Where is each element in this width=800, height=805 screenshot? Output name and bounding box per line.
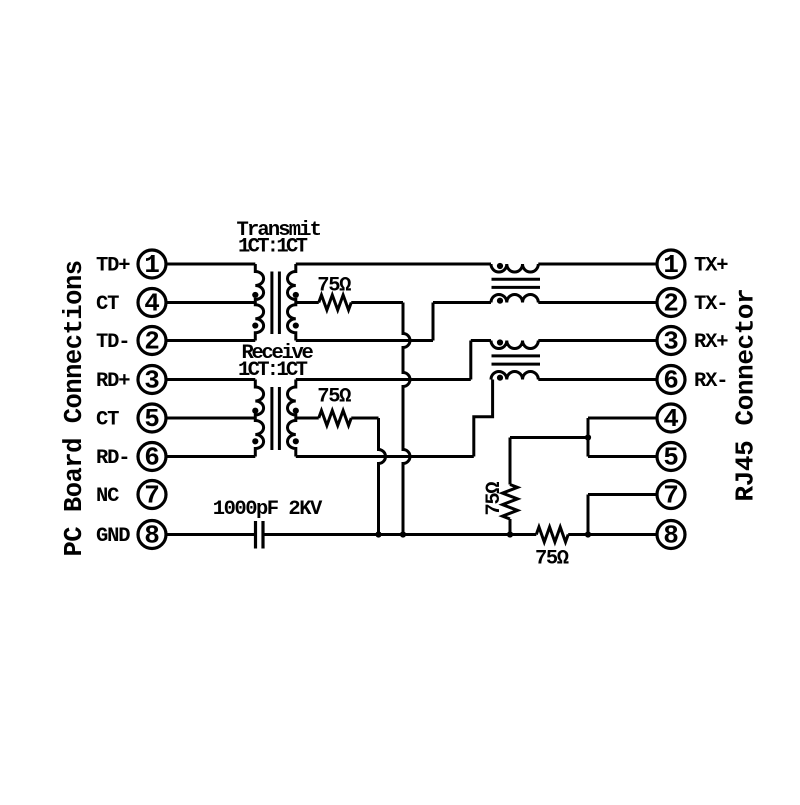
svg-text:1000pF 2KV: 1000pF 2KV (213, 498, 323, 521)
wire pin 7 drop to GND bus (587, 495, 590, 535)
wire GND bus to RJ45 pin 8 (568, 533, 657, 536)
PCB pin 7 circle (138, 481, 166, 511)
wire R2 to vertical node B (351, 417, 378, 420)
wire RJ45 pin 7 stub (588, 493, 657, 496)
svg-text:RX+: RX+ (694, 331, 728, 354)
transformer T1 primary winding (255, 264, 263, 341)
RJ45 pin 2 circle (657, 289, 685, 319)
junction pins 4-5 node (585, 434, 591, 440)
label Receive (242, 342, 314, 365)
svg-text:7: 7 (663, 481, 679, 511)
PCB pin 1 circle (138, 250, 166, 280)
wire node B vertical with hop (379, 418, 386, 535)
svg-text:TX+: TX+ (694, 255, 728, 278)
transformer T1 secondary winding (287, 264, 295, 341)
label CT (96, 409, 119, 432)
wire tie node to resistor R3 (510, 436, 588, 439)
svg-text:8: 8 (144, 521, 160, 551)
wire node A vertical with hops (403, 303, 410, 535)
RJ45 pin 7 circle (657, 481, 685, 511)
svg-text:6: 6 (663, 366, 679, 396)
choke L2 top coil (491, 341, 538, 349)
RJ45 pin 3 circle (657, 327, 685, 357)
PCB pin 3 circle (138, 366, 166, 396)
wire T2 secondary top (RX+) (296, 378, 471, 381)
svg-text:4: 4 (144, 289, 160, 319)
wire L1 to RJ45 pin 1 (538, 263, 657, 266)
svg-text:3: 3 (663, 327, 679, 357)
L1 bottom polarity dot (497, 298, 503, 304)
label NC (96, 485, 119, 508)
label CT (96, 293, 119, 316)
wire GND pin 8 to capacitor (166, 533, 254, 536)
svg-text:GND: GND (96, 525, 130, 548)
resistor R3 75ohm vertical (503, 485, 518, 520)
wire R3 top lead (509, 438, 512, 485)
svg-text:75Ω: 75Ω (317, 385, 351, 408)
T2 secondary polarity dot (293, 408, 299, 414)
label 1000pF 2KV (213, 498, 323, 521)
svg-text:RD+: RD+ (96, 370, 130, 393)
choke L1 bottom coil (491, 294, 538, 302)
choke L1 top coil (491, 264, 538, 272)
svg-text:5: 5 (663, 443, 679, 473)
svg-text:RX-: RX- (694, 370, 727, 393)
junction R3 on GND bus (507, 531, 513, 537)
junction node B on GND bus (375, 531, 381, 537)
wire pin 6 to transformer row 6 (166, 455, 255, 458)
svg-text:NC: NC (96, 485, 119, 508)
svg-text:75Ω: 75Ω (483, 482, 506, 516)
label 1CT:1CT (transmit) (238, 235, 308, 258)
RJ45 pin 6 circle (657, 366, 685, 396)
svg-text:7: 7 (144, 481, 160, 511)
svg-text:8: 8 (663, 521, 679, 551)
junction pin7 drop on GND bus (585, 531, 591, 537)
wire GND bus cap to resistor R4 (265, 533, 537, 536)
wire RJ45 pin 4 stub (588, 417, 657, 420)
wire T1 secondary top to choke L1 (296, 263, 491, 266)
svg-text:6: 6 (144, 443, 160, 473)
RJ45 pin 5 circle (657, 443, 685, 473)
label TD+ (96, 255, 130, 278)
svg-text:CT: CT (96, 409, 119, 432)
svg-text:TD-: TD- (96, 331, 129, 354)
PCB pin 4 circle (138, 289, 166, 319)
label RD- (96, 447, 129, 470)
capacitor C1 left plate (254, 521, 257, 549)
right title RJ45 Connector (730, 289, 760, 502)
RJ45 pin 4 circle (657, 404, 685, 434)
label TX- (694, 293, 727, 316)
label 75&#937; (R2) (317, 385, 351, 408)
svg-text:1CT:1CT: 1CT:1CT (238, 235, 308, 258)
PCB pin 6 circle (138, 443, 166, 473)
wire pin 5 to transformer row 5 (166, 417, 255, 420)
wire TX- riser (432, 303, 435, 341)
T1 secondary polarity dot (293, 292, 299, 298)
label 75&#937; (R3, vertical) (483, 482, 506, 516)
wire TX- to choke L1 (433, 301, 491, 304)
T1 core lines (272, 272, 280, 335)
L2 core lines (492, 356, 541, 364)
svg-text:CT: CT (96, 293, 119, 316)
svg-text:RD-: RD- (96, 447, 129, 470)
T1 secondary lower dot (293, 322, 299, 328)
wire L2 to RJ45 pin 3 (538, 339, 657, 342)
label RX+ (694, 331, 728, 354)
T1 primary polarity dot (252, 292, 258, 298)
RJ45 pin 1 circle (657, 250, 685, 280)
wire pin 3 to transformer row 4 (166, 378, 255, 381)
label 75&#937; (R4) (535, 548, 569, 571)
resistor R1 75ohm (319, 295, 352, 310)
wire RX+ riser (469, 341, 472, 380)
T2 secondary lower dot (293, 438, 299, 444)
wire T2 secondary CT to resistor R2 (296, 417, 319, 420)
L2 bottom polarity dot (497, 375, 503, 381)
label 1CT:1CT (receive) (238, 359, 308, 382)
wire pin 1 to transformer row 1 (166, 263, 255, 266)
label RX- (694, 370, 727, 393)
svg-text:RJ45 Connector: RJ45 Connector (730, 289, 760, 502)
resistor R2 75ohm (319, 411, 352, 426)
svg-text:75Ω: 75Ω (535, 548, 569, 571)
wire R3 bottom lead (509, 519, 512, 535)
wire pin 2 to transformer row 3 (166, 339, 255, 342)
T2 primary lower dot (252, 438, 258, 444)
svg-text:TX-: TX- (694, 293, 727, 316)
svg-text:4: 4 (663, 404, 679, 434)
wire RJ45 pin 5 stub (588, 455, 657, 458)
capacitor C1 right plate (261, 521, 264, 549)
junction node A on GND bus (400, 531, 406, 537)
label GND (96, 525, 130, 548)
PCB pin 8 circle (138, 521, 166, 551)
L1 core lines (492, 279, 541, 287)
wire R1 to vertical node A (351, 301, 403, 304)
RJ45 pin 8 circle (657, 521, 685, 551)
svg-text:3: 3 (144, 366, 160, 396)
label 75&#937; (R1) (317, 274, 351, 297)
svg-text:2: 2 (144, 327, 160, 357)
wire L2 to RJ45 pin 6 (538, 378, 657, 381)
svg-text:PC Board Connections: PC Board Connections (60, 260, 89, 556)
svg-text:1: 1 (663, 250, 679, 280)
wire L1 to RJ45 pin 2 (538, 301, 657, 304)
wire T1 secondary CT to resistor R1 (296, 301, 319, 304)
wire pins 4-5 tie vertical (587, 418, 590, 457)
transformer T2 secondary winding (287, 380, 295, 457)
left title PC Board Connections (60, 260, 89, 556)
wire T2 secondary bottom (RX-) (296, 455, 474, 458)
choke L2 bottom coil (491, 371, 538, 379)
T1 primary lower dot (252, 322, 258, 328)
wire RX- staircase to choke L2 (474, 380, 493, 457)
PCB pin 2 circle (138, 327, 166, 357)
svg-text:2: 2 (663, 289, 679, 319)
wire pin 4 to transformer row 2 (166, 301, 255, 304)
T2 primary polarity dot (252, 408, 258, 414)
svg-text:5: 5 (144, 404, 160, 434)
L1 top polarity dot (497, 263, 503, 269)
label TX+ (694, 255, 728, 278)
label Transmit (237, 219, 321, 242)
resistor R4 75ohm (536, 527, 568, 542)
label TD- (96, 331, 129, 354)
svg-text:1: 1 (144, 250, 160, 280)
wire RX+ to choke L2 (471, 339, 491, 342)
L2 top polarity dot (497, 339, 503, 345)
svg-text:TD+: TD+ (96, 255, 130, 278)
PCB pin 5 circle (138, 404, 166, 434)
T2 core lines (272, 387, 280, 450)
label RD+ (96, 370, 130, 393)
transformer T2 primary winding (255, 380, 263, 457)
wire T1 secondary bottom (296, 339, 433, 342)
